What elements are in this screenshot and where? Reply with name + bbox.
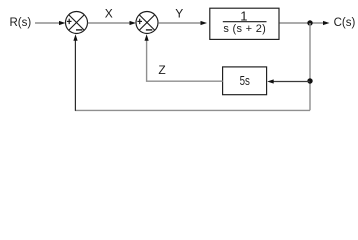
- svg-text:R(s): R(s): [10, 17, 32, 29]
- svg-text:5s: 5s: [240, 75, 251, 88]
- svg-text:s (s + 2): s (s + 2): [223, 23, 266, 35]
- summing junction S1: [66, 12, 88, 34]
- label R(s): [10, 17, 32, 29]
- block H 5s: [223, 67, 267, 95]
- svg-text:X: X: [105, 7, 113, 21]
- wire S2 to block G: [158, 21, 207, 25]
- label Z: [158, 63, 165, 77]
- svg-text:Z: Z: [158, 63, 165, 77]
- plus sign S2: [137, 19, 142, 24]
- wire block G to output: [280, 21, 330, 25]
- label C(s): [334, 17, 356, 29]
- block G 1/(s(s+2)): [210, 8, 279, 39]
- label X: [105, 7, 113, 21]
- wire input to summer S1: [35, 21, 66, 25]
- label Y: [175, 7, 183, 21]
- minus sign S2: [146, 29, 152, 31]
- wire feedback riser to summer S1: [73, 34, 77, 111]
- plus sign S1: [67, 19, 72, 24]
- wire output vertical drop: [309, 23, 311, 110]
- wire node to block H: [267, 79, 310, 83]
- summing junction S2: [136, 12, 158, 34]
- svg-text:C(s): C(s): [334, 17, 356, 29]
- node feedback junction: [307, 78, 312, 83]
- svg-text:Y: Y: [175, 7, 183, 21]
- wire block H to summer S2: [145, 34, 223, 81]
- wire outer feedback loop: [75, 109, 310, 111]
- minus sign S1: [76, 29, 82, 31]
- node output junction: [307, 20, 312, 25]
- wire S1 to S2: [88, 21, 136, 25]
